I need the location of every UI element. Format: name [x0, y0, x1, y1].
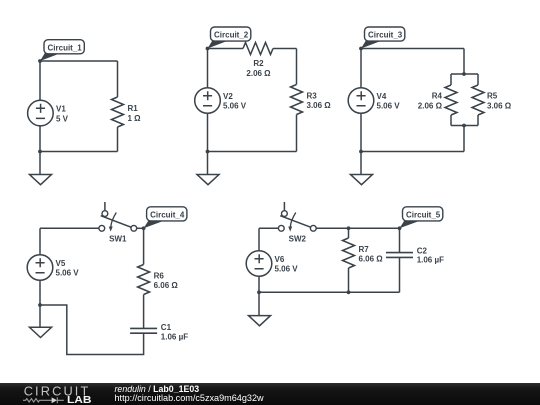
wire left-lower circuit 1	[39, 126, 41, 152]
svg-text:C2: C2	[417, 246, 428, 255]
svg-text:2.06 Ω: 2.06 Ω	[418, 102, 443, 111]
label V1 5 V	[56, 105, 69, 124]
svg-text:5.06 V: 5.06 V	[223, 102, 247, 111]
svg-text:3.06 Ω: 3.06 Ω	[307, 101, 332, 110]
resistor R3	[291, 85, 303, 115]
label R7 6.06 Ω	[359, 245, 384, 264]
switch SW1	[99, 202, 137, 232]
svg-text:V2: V2	[223, 92, 233, 101]
svg-text:3.06 Ω: 3.06 Ω	[487, 102, 512, 111]
wire left-top circuit 4	[40, 227, 99, 229]
wire R7-branch-lower circuit 5	[348, 268, 350, 292]
svg-text:Circuit_1: Circuit_1	[48, 43, 83, 52]
svg-text:1.06 µF: 1.06 µF	[161, 333, 188, 342]
junction dot bottom circuit 3	[359, 150, 363, 154]
junction dot R7-top circuit 5	[347, 226, 351, 230]
resistor R5	[472, 74, 484, 126]
svg-text:R7: R7	[359, 245, 370, 254]
node dot circuit 5	[398, 226, 402, 230]
wire C2-branch-upper circuit 5	[399, 228, 401, 252]
wire right-upper circuit 1	[117, 61, 119, 97]
svg-text:6.06 Ω: 6.06 Ω	[154, 281, 179, 290]
voltage source V4	[348, 88, 374, 114]
ground circuit 3	[351, 152, 373, 185]
svg-text:1.06 µF: 1.06 µF	[417, 255, 444, 264]
resistor R1	[112, 97, 124, 127]
wire left-lower circuit 2	[207, 113, 209, 151]
svg-text:1 Ω: 1 Ω	[128, 114, 142, 123]
node Circuit_1 flag	[40, 40, 84, 61]
svg-text:R2: R2	[253, 59, 264, 68]
wire bottom circuit 1	[40, 151, 118, 153]
svg-text:V1: V1	[56, 105, 66, 114]
voltage source V6	[246, 251, 272, 277]
wire top-right circuit 2	[273, 48, 297, 50]
svg-text:LAB: LAB	[67, 395, 92, 405]
wire bottom circuit 3	[361, 151, 464, 153]
svg-text:Circuit_5: Circuit_5	[406, 210, 441, 219]
junction dot parallel-bottom circuit 3	[462, 124, 466, 128]
label R2 2.06 Ω	[246, 59, 271, 78]
svg-text:5 V: 5 V	[56, 114, 69, 123]
node dot top-left circuit 2	[206, 47, 210, 51]
label R4 2.06 Ω	[418, 92, 443, 111]
wire right-upper circuit 2	[296, 49, 298, 85]
wire left-rail-upper circuit 5	[258, 228, 260, 251]
wire left-upper circuit 1	[39, 61, 41, 101]
wire bottom circuit 5	[259, 291, 400, 293]
wire switch-to-node circuit 5	[316, 227, 399, 229]
wire C1-bottom circuit 4	[40, 305, 144, 355]
junction dot V6-bottom circuit 5	[257, 290, 261, 294]
label V6 5.06 V	[275, 255, 299, 274]
svg-text:R1: R1	[128, 104, 139, 113]
label V5 5.06 V	[56, 259, 80, 278]
svg-text:5.06 V: 5.06 V	[56, 269, 80, 278]
wire left-upper circuit 3	[360, 49, 362, 89]
wire R6-to-C1 circuit 4	[143, 295, 145, 329]
wire left-upper circuit 2	[207, 49, 209, 89]
wire switch-to-node circuit 4	[137, 227, 144, 229]
node Circuit_2 flag	[208, 27, 251, 49]
svg-text:R5: R5	[487, 92, 498, 101]
svg-text:2.06 Ω: 2.06 Ω	[246, 69, 271, 78]
svg-text:SW2: SW2	[289, 235, 307, 244]
wire R7-branch-upper circuit 5	[348, 228, 350, 238]
wire C2-branch-lower circuit 5	[399, 257, 401, 292]
wire right-lower circuit 1	[117, 127, 119, 152]
capacitor C2	[386, 253, 413, 258]
label R1 1 Ω	[128, 104, 142, 123]
svg-text:R6: R6	[154, 271, 165, 280]
wire top circuit 3	[361, 48, 464, 50]
wire left-lower circuit 3	[360, 113, 362, 151]
wire parallel bottom bar	[451, 125, 478, 127]
resistor R7	[343, 238, 355, 268]
svg-text:Circuit_2: Circuit_2	[214, 31, 249, 40]
wire node-to-R6 circuit 4	[143, 228, 145, 264]
label C1 1.06 µF	[161, 323, 188, 342]
node dot top-left circuit 1	[38, 59, 42, 63]
node dot top-left circuit 3	[359, 47, 363, 51]
junction dot R7-bottom circuit 5	[347, 290, 351, 294]
logo resistor-diode squiggle	[23, 397, 64, 403]
svg-text:V6: V6	[275, 255, 285, 264]
label C2 1.06 µF	[417, 246, 444, 264]
wire bottom circuit 2	[208, 151, 297, 153]
node dot circuit 4	[142, 226, 146, 230]
wire top-left circuit 2	[208, 48, 244, 50]
ground circuit 2	[197, 152, 219, 185]
svg-text:Circuit_3: Circuit_3	[368, 31, 403, 40]
svg-text:5.06 V: 5.06 V	[377, 102, 401, 111]
resistor R4	[445, 74, 457, 126]
svg-text:V4: V4	[377, 92, 387, 101]
label V4 5.06 V	[377, 92, 401, 111]
resistor R6	[138, 265, 150, 295]
svg-text:R3: R3	[307, 91, 318, 100]
svg-text:V5: V5	[56, 259, 66, 268]
svg-text:6.06 Ω: 6.06 Ω	[359, 255, 384, 264]
label R5 3.06 Ω	[487, 92, 512, 111]
capacitor C1	[130, 328, 157, 333]
voltage source V2	[195, 88, 221, 114]
wire right-down-to-parallel circuit 3	[463, 49, 465, 75]
junction dot bottom circuit 2	[206, 150, 210, 154]
wire top circuit 1	[40, 60, 118, 62]
svg-text:R4: R4	[432, 92, 443, 101]
svg-text:Circuit_4: Circuit_4	[150, 210, 185, 219]
junction dot parallel-top circuit 3	[462, 72, 466, 76]
label R6 6.06 Ω	[154, 271, 179, 290]
wire V6-to-junction circuit 5	[258, 276, 260, 292]
label R3 3.06 Ω	[307, 91, 332, 110]
wire V5-to-junction circuit 4	[39, 280, 41, 305]
voltage source V1	[28, 100, 54, 126]
svg-text:5.06 V: 5.06 V	[275, 265, 299, 274]
label V2 5.06 V	[223, 92, 247, 111]
ground circuit 5	[249, 292, 271, 326]
svg-text:C1: C1	[161, 323, 172, 332]
resistor R2	[243, 43, 273, 55]
junction dot circuit 4	[38, 303, 42, 307]
wire right-lower circuit 2	[296, 115, 298, 152]
junction dot bottom circuit 1	[38, 150, 42, 154]
wire right-lower circuit 3	[463, 126, 465, 152]
switch SW2	[278, 202, 316, 232]
node Circuit_3 flag	[361, 27, 405, 49]
wire parallel top bar	[451, 73, 478, 75]
footer bar background	[0, 383, 540, 405]
voltage source V5	[27, 255, 53, 281]
svg-text:SW1: SW1	[109, 235, 127, 244]
ground circuit 4	[30, 305, 52, 338]
node Circuit_4 flag	[144, 207, 187, 229]
ground circuit 1	[30, 152, 52, 185]
svg-text:http://circuitlab.com/c5zxa9m6: http://circuitlab.com/c5zxa9m64g32w	[115, 393, 265, 403]
node Circuit_5 flag	[400, 207, 443, 229]
wire left-rail-upper circuit 4	[39, 228, 41, 255]
wire left-top circuit 5	[259, 227, 278, 229]
